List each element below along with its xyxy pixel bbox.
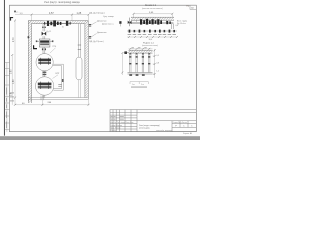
valve cluster on top wall pipe <box>44 20 70 26</box>
svg-text:Сущ. газопр.: Сущ. газопр. <box>103 16 115 18</box>
wall right (hatched) <box>85 21 88 100</box>
top-left small stamp <box>14 11 16 13</box>
razrez pipe fittings <box>129 56 150 64</box>
flue duct (rounded rect) <box>76 57 82 80</box>
razrez top dim tiny texts <box>132 46 147 49</box>
valve on riser <box>42 32 47 36</box>
fitting below meter <box>42 48 46 50</box>
schema right elbow <box>172 24 174 29</box>
svg-text:(монтажная схема): (монтажная схема) <box>142 45 158 47</box>
svg-text:ВД, Ду 15(нов.): ВД, Ду 15(нов.) <box>90 41 104 43</box>
svg-text:Разраб. Иванов: Разраб. Иванов <box>110 125 122 127</box>
razrez top dim line <box>129 48 153 50</box>
razrez bottom pipe <box>128 73 153 75</box>
svg-text:15: 15 <box>62 27 64 29</box>
fitting between circles <box>43 72 47 76</box>
wall top (hatched) <box>28 21 88 24</box>
schema hanger stubs <box>137 20 167 22</box>
schema dimension line <box>134 14 173 17</box>
svg-text:2,70: 2,70 <box>13 37 15 42</box>
svg-text:Пров. Петров: Пров. Петров <box>110 128 120 130</box>
schema pipe double line <box>129 22 174 23</box>
left margin small labels <box>10 93 14 102</box>
top right corner stamp box <box>190 5 196 9</box>
gas meter <box>36 39 54 47</box>
wall left (hatched) <box>28 21 31 103</box>
razrez bottom bracket dim <box>130 82 148 84</box>
svg-text:Ду 15 в/ст.: Ду 15 в/ст. <box>177 23 187 25</box>
svg-text:ВД, Ду 15(подв.): ВД, Ду 15(подв.) <box>90 12 106 14</box>
wall penetration marks right <box>89 24 91 39</box>
leader to stove label <box>50 48 56 53</box>
svg-text:Ду 15: Ду 15 <box>47 31 52 33</box>
svg-text:4,57: 4,57 <box>49 12 54 15</box>
labels under fittings <box>128 33 176 36</box>
svg-text:Формат А4: Формат А4 <box>183 132 192 135</box>
left margin stamp boxes <box>4 63 9 132</box>
svg-text:1,25: 1,25 <box>77 12 82 15</box>
gas riser pipe vertical <box>43 24 45 77</box>
razrez left vertical dim <box>121 53 123 75</box>
schema ceiling hatched band <box>131 17 174 20</box>
paper background <box>0 0 200 140</box>
leader to heater label <box>53 75 59 79</box>
svg-text:Стадия Лист Листов: Стадия Лист Листов <box>173 122 187 124</box>
schema small fitting left <box>119 21 121 24</box>
riser union fittings <box>42 27 46 28</box>
svg-text:Демонтаж: Демонтаж <box>97 21 107 23</box>
wall bottom (thin double line) <box>28 98 88 100</box>
svg-text:0,80: 0,80 <box>11 69 13 74</box>
schema unrolled pipe run (lower row) <box>127 30 177 32</box>
pipe loop to right <box>53 64 63 90</box>
razrez left valve <box>124 52 129 54</box>
wall fitting dot left <box>28 36 30 38</box>
faint marks in upper rows of revision table <box>111 116 124 120</box>
svg-text:0,4: 0,4 <box>176 25 179 27</box>
lower dim line <box>127 36 177 38</box>
left stamp vertical text marks <box>5 88 8 129</box>
door jamb ticks bottom wall <box>41 96 44 101</box>
svg-text:Демонтаж: Демонтаж <box>97 32 107 34</box>
svg-text:(монтаж после замены): (монтаж после замены) <box>142 8 163 10</box>
white gap in wall behind pipe assembly <box>44 21 71 24</box>
svg-text:0,8: 0,8 <box>156 62 159 64</box>
svg-text:жилого дома: жилого дома <box>139 127 150 129</box>
svg-text:Схема 1-1: Схема 1-1 <box>145 5 157 7</box>
svg-text:1,40: 1,40 <box>13 79 15 84</box>
schema fittings row (dark) <box>140 19 171 25</box>
svg-text:10,6: 10,6 <box>149 39 153 41</box>
razrez ceiling hatched band <box>129 50 153 53</box>
fittings straddling line <box>129 30 175 33</box>
svg-text:0,5: 0,5 <box>156 55 159 57</box>
razrez vertical pipes (double lines) <box>130 53 150 72</box>
razrez right vertical dim <box>153 49 155 78</box>
svg-text:Демонтаж сч.: Демонтаж сч. <box>102 24 114 26</box>
svg-text:Н.контр.: Н.контр. <box>110 130 117 132</box>
drawing frame <box>10 5 197 132</box>
gas stove circle ПГ <box>36 54 53 71</box>
razrez pipe top connectors <box>129 53 150 54</box>
leader lines right of plan <box>91 22 96 37</box>
loop tick fittings <box>58 84 61 86</box>
duct tail to bottom wall <box>79 80 81 98</box>
top-left approval mark <box>10 17 13 21</box>
schema left valve <box>129 18 131 27</box>
desk gray strip at bottom <box>0 136 200 140</box>
svg-text:Узел (внутр. газопровод) завод: Узел (внутр. газопровод) завода <box>44 1 80 4</box>
left dimension lines <box>12 21 15 105</box>
svg-text:газоснабж. квартиры: газоснабж. квартиры <box>156 130 173 132</box>
top dimension line 4,57 / 1,25 <box>15 15 89 21</box>
svg-text:1,2: 1,2 <box>156 71 159 73</box>
bottom dimension line 240 <box>15 96 89 105</box>
paper left edge line <box>3 0 5 136</box>
stub below heater to wall <box>43 95 45 98</box>
pipe along top wall <box>43 22 71 24</box>
flue riser pipe <box>79 24 81 58</box>
section cut mark 1 <box>34 45 37 48</box>
water heater circle ВПГ <box>35 77 53 95</box>
